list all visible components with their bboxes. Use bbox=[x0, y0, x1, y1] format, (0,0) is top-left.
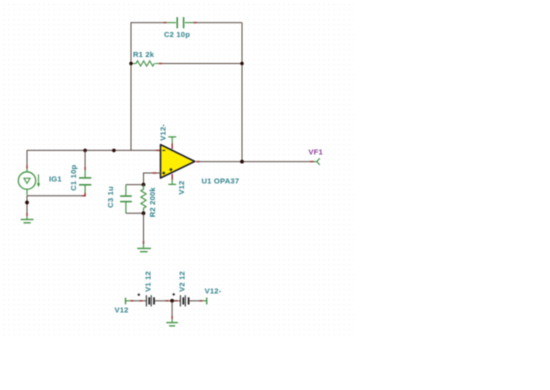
capacitor C3 bbox=[120, 185, 132, 214]
capacitor C1 bbox=[79, 170, 91, 196]
pin mark IG1 top bbox=[26, 166, 28, 169]
svg-text:R1 2k: R1 2k bbox=[133, 50, 155, 59]
battery V2 bbox=[180, 295, 188, 306]
grid background bbox=[0, 0, 354, 337]
label V12 bottom power bbox=[177, 181, 186, 195]
wire feedback right vertical bbox=[241, 23, 243, 162]
wire R2 to ground bbox=[143, 213, 145, 240]
pin mark op-amp output bbox=[196, 161, 200, 163]
junction battery center bbox=[170, 299, 174, 303]
battery V1 plus mark bbox=[138, 293, 141, 296]
wire terminal to V1 bbox=[134, 300, 140, 302]
wire into V1 bbox=[143, 300, 146, 302]
pin mark R2 ground bbox=[143, 241, 145, 244]
terminal V12- right bbox=[203, 298, 207, 305]
battery V1 bbox=[146, 295, 154, 306]
pin mark C1 bottom corner bbox=[82, 195, 86, 197]
svg-text:V1 12: V1 12 bbox=[144, 271, 153, 292]
svg-text:C2 10p: C2 10p bbox=[164, 30, 190, 39]
junction node input row bbox=[112, 149, 116, 153]
junction node C1 top bbox=[83, 149, 87, 153]
label R1 2k bbox=[133, 50, 155, 59]
svg-text:V12: V12 bbox=[114, 305, 128, 314]
resistor R2 bbox=[141, 185, 146, 214]
label V12- right bbox=[205, 286, 222, 295]
wire C3 R2 top bbox=[126, 184, 144, 186]
svg-text:V12: V12 bbox=[177, 181, 186, 195]
ground battery center bbox=[166, 319, 178, 326]
svg-text:V2 12: V2 12 bbox=[177, 271, 186, 292]
svg-text:VF1: VF1 bbox=[308, 148, 323, 157]
svg-text:C3 1u: C3 1u bbox=[106, 186, 115, 208]
label V1 12 bbox=[144, 271, 153, 292]
junction R1 left bbox=[129, 62, 132, 65]
pin mark VF1 bbox=[310, 161, 314, 163]
wire top feedback horizontal left of C2 bbox=[131, 22, 164, 24]
label V2 12 bbox=[177, 271, 186, 292]
label VF1 bbox=[308, 148, 323, 157]
pin mark V2 right bbox=[200, 300, 203, 302]
wire noninverting input bbox=[144, 173, 153, 185]
svg-text:U1 OPA37: U1 OPA37 bbox=[202, 177, 240, 186]
wire to center junction bbox=[169, 300, 175, 302]
pin mark minus input bbox=[156, 149, 160, 151]
wire inverting input row bbox=[27, 149, 156, 151]
wire IG1 down to ground bbox=[26, 195, 28, 213]
resistor R1 bbox=[131, 61, 162, 66]
label V12 left bbox=[114, 305, 128, 314]
wire R1 to right vertical bbox=[162, 63, 242, 65]
junction R1 right bbox=[240, 62, 243, 65]
label C1 10p bbox=[69, 164, 78, 190]
terminal V12 left bbox=[126, 298, 131, 305]
op-amp U1 bbox=[161, 145, 195, 179]
wire IG1 bottom row bbox=[27, 195, 82, 197]
wire IG1 top lead bbox=[26, 150, 28, 166]
pin mark V1 left bbox=[140, 300, 143, 302]
svg-text:C1 10p: C1 10p bbox=[69, 164, 78, 190]
label C2 10p bbox=[164, 30, 190, 39]
svg-text:V12-: V12- bbox=[205, 286, 222, 295]
wire battery center to ground bbox=[171, 301, 173, 316]
junction IG1 ground node bbox=[25, 201, 29, 205]
pin mark V2 left bbox=[175, 300, 178, 302]
wire top feedback horizontal right of C2 bbox=[197, 22, 243, 24]
op-amp bottom power pin V12 bbox=[168, 174, 176, 184]
svg-text:IG1: IG1 bbox=[49, 175, 62, 184]
pin mark IG1 ground bbox=[26, 213, 28, 216]
pin mark V1 right bbox=[166, 300, 169, 302]
wire V2 to right terminal bbox=[189, 300, 200, 302]
capacitor C2 bbox=[164, 17, 197, 28]
battery V2 plus mark bbox=[172, 293, 175, 296]
current source IG1 bbox=[18, 169, 40, 195]
label R2 200k bbox=[148, 187, 157, 218]
ground R2 bbox=[137, 244, 151, 252]
wire into V2 bbox=[178, 300, 181, 302]
wire C3 R2 bottom bbox=[126, 212, 144, 214]
svg-text:R2 200k: R2 200k bbox=[148, 187, 157, 218]
pin mark plus input bbox=[153, 172, 157, 174]
ground IG1 bbox=[21, 216, 34, 223]
pin mark battery ground bbox=[171, 316, 173, 319]
wire top feedback left vertical bbox=[130, 23, 132, 151]
wire C1 top lead bbox=[84, 150, 86, 167]
junction R2 bottom bbox=[142, 211, 146, 215]
label U1 OPA37 bbox=[202, 177, 240, 186]
wire output row bbox=[200, 161, 310, 163]
label V12- top power bbox=[158, 124, 167, 141]
wire V1 to center bbox=[155, 300, 166, 302]
svg-text:V12-: V12- bbox=[158, 124, 167, 141]
junction output feedback bbox=[240, 160, 244, 164]
label C3 1u bbox=[106, 186, 115, 208]
op-amp top power pin V12- bbox=[168, 137, 176, 149]
pin mark C1 top bbox=[84, 167, 86, 170]
wire plus input to triangle bbox=[157, 172, 161, 174]
voltage pin VF1 probe bbox=[314, 158, 320, 165]
pin mark V12 terminal bbox=[130, 300, 133, 302]
label IG1 bbox=[49, 175, 62, 184]
junction R2 top bbox=[142, 183, 146, 187]
